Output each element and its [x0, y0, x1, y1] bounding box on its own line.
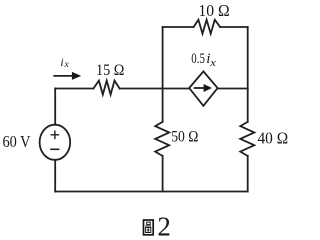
svg-text:x: x	[209, 57, 216, 69]
svg-text:2: 2	[157, 212, 171, 238]
minus sign of source	[50, 148, 59, 150]
wire main horizontal middle segment	[120, 88, 190, 90]
wire main horizontal right segment	[218, 88, 248, 90]
svg-text:60 V: 60 V	[3, 132, 31, 151]
resistor R1 15 ohm zigzag	[93, 81, 119, 95]
label 0.5ix	[191, 51, 216, 69]
wire mid vertical above 50 ohm	[162, 89, 164, 122]
wire left vertical above source	[54, 89, 56, 125]
svg-text:x: x	[63, 59, 69, 69]
svg-text:40 Ω: 40 Ω	[258, 129, 289, 148]
wire mid vertical below 50 ohm	[162, 156, 164, 192]
plus sign of source	[51, 131, 60, 140]
current ix arrow	[53, 72, 81, 80]
svg-text:i: i	[60, 55, 63, 69]
wire top branch right segment	[220, 26, 248, 28]
wire right vertical from top branch to main wire	[247, 27, 249, 89]
svg-text:0.5: 0.5	[191, 51, 205, 67]
svg-text:15 Ω: 15 Ω	[96, 62, 124, 79]
dependent source U1 diamond	[189, 71, 217, 105]
resistor R2 10 ohm zigzag	[194, 20, 221, 34]
dependent source arrow	[194, 84, 212, 92]
figure caption glyph tu (CJK) drawn	[144, 220, 154, 235]
label ix current	[60, 55, 68, 69]
wire left vertical up from mid node to top branch	[162, 27, 164, 89]
wire top branch left segment	[163, 26, 194, 28]
resistor R4 40 ohm zigzag	[240, 122, 254, 156]
resistor R3 50 ohm zigzag	[155, 122, 169, 156]
wire left vertical below source	[54, 160, 56, 192]
svg-text:50 Ω: 50 Ω	[171, 129, 198, 146]
voltage source V1 circle	[40, 125, 71, 160]
svg-text:10 Ω: 10 Ω	[198, 1, 229, 20]
wire bottom horizontal	[55, 191, 248, 193]
wire right vertical below 40 ohm	[247, 156, 249, 192]
wire main horizontal left segment	[55, 88, 93, 90]
wire right vertical above 40 ohm	[247, 89, 249, 122]
